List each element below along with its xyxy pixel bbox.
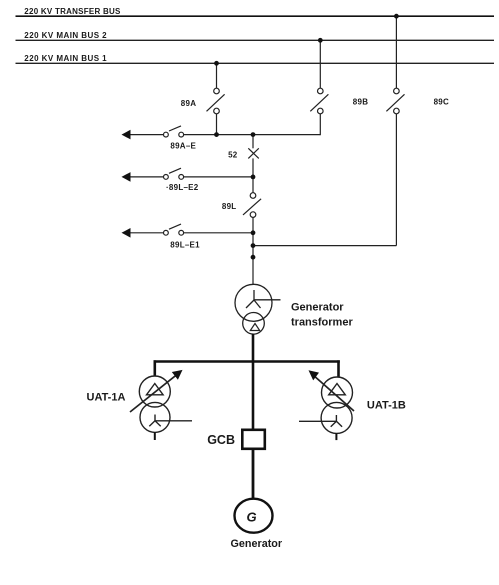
svg-text:89A–E: 89A–E	[170, 142, 196, 151]
svg-text:89B: 89B	[353, 97, 368, 106]
svg-text:89L–E1: 89L–E1	[170, 241, 200, 250]
svg-text:G: G	[247, 510, 257, 525]
svg-text:220 KV TRANSFER BUS: 220 KV TRANSFER BUS	[24, 7, 121, 16]
svg-text:220 KV MAIN BUS 1: 220 KV MAIN BUS 1	[24, 54, 107, 63]
svg-text:·89L–E2: ·89L–E2	[166, 183, 199, 192]
svg-text:GCB: GCB	[207, 433, 235, 447]
svg-text:89C: 89C	[434, 97, 449, 106]
svg-text:UAT-1A: UAT-1A	[87, 392, 126, 404]
svg-text:Generator: Generator	[231, 538, 283, 550]
svg-text:89L: 89L	[222, 202, 237, 211]
svg-text:transformer: transformer	[291, 316, 353, 328]
svg-text:52: 52	[228, 151, 238, 160]
svg-text:89A: 89A	[181, 99, 196, 108]
svg-text:UAT-1B: UAT-1B	[367, 399, 406, 411]
svg-text:Generator: Generator	[291, 301, 344, 313]
svg-text:220 KV MAIN BUS 2: 220 KV MAIN BUS 2	[24, 31, 107, 40]
